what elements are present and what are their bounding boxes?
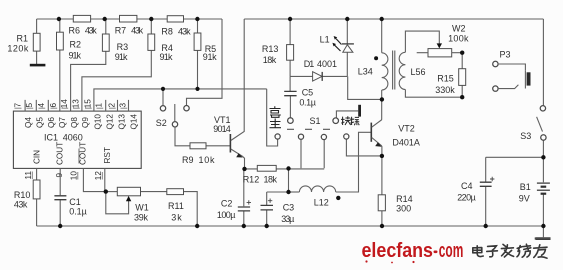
svg-text:Q4: Q4 — [24, 117, 33, 128]
svg-text:R3: R3 — [117, 42, 129, 52]
svg-text:B1: B1 — [520, 182, 531, 192]
svg-text:P3: P3 — [500, 50, 511, 60]
svg-text:R7: R7 — [115, 25, 127, 35]
svg-text:L1: L1 — [320, 35, 330, 45]
svg-text:3k: 3k — [171, 213, 182, 223]
svg-text:C4: C4 — [461, 181, 473, 191]
svg-text:91k: 91k — [203, 52, 217, 62]
svg-text:Q10: Q10 — [94, 114, 103, 130]
svg-text:330k: 330k — [435, 85, 455, 95]
svg-text:COUT: COUT — [79, 142, 88, 165]
svg-text:18k: 18k — [264, 175, 278, 185]
svg-text:VT2: VT2 — [398, 124, 415, 134]
svg-text:Q6: Q6 — [47, 117, 56, 128]
svg-text:Q12: Q12 — [106, 114, 115, 130]
svg-text:5: 5 — [25, 103, 34, 108]
svg-text:7: 7 — [14, 103, 23, 108]
svg-text:L12: L12 — [314, 197, 329, 207]
svg-text:R15: R15 — [437, 74, 454, 84]
svg-text:43k: 43k — [85, 26, 97, 36]
svg-text:100µ: 100µ — [217, 210, 236, 220]
svg-text:9: 9 — [55, 173, 64, 178]
svg-text:39k: 39k — [134, 213, 149, 223]
svg-text:11: 11 — [24, 171, 33, 180]
svg-text:Q13: Q13 — [118, 114, 127, 130]
svg-text:D1: D1 — [304, 59, 315, 69]
svg-text:COUT: COUT — [56, 142, 65, 165]
svg-text:C5: C5 — [302, 88, 314, 98]
svg-text:R11: R11 — [168, 201, 184, 211]
svg-text:C3: C3 — [283, 202, 295, 212]
svg-text:43k: 43k — [131, 25, 144, 35]
svg-text:14: 14 — [60, 99, 69, 109]
svg-text:1: 1 — [95, 103, 104, 108]
svg-text:9014: 9014 — [213, 124, 231, 134]
svg-text:300: 300 — [396, 203, 411, 213]
svg-text:9V: 9V — [519, 194, 530, 204]
svg-text:12: 12 — [94, 171, 103, 181]
svg-text:S3: S3 — [520, 131, 531, 141]
svg-text:W2: W2 — [452, 24, 466, 34]
svg-text:91k: 91k — [69, 51, 82, 61]
svg-text:6: 6 — [49, 103, 58, 108]
svg-text:15: 15 — [84, 99, 93, 109]
svg-text:com: com — [439, 240, 464, 262]
svg-text:D401A: D401A — [392, 137, 420, 147]
svg-text:18k: 18k — [263, 55, 277, 65]
svg-text:43k: 43k — [178, 26, 191, 36]
svg-text:2: 2 — [108, 103, 117, 108]
svg-text:R6: R6 — [69, 26, 81, 36]
svg-text:IC1: IC1 — [44, 132, 58, 142]
svg-text:W1: W1 — [135, 203, 149, 213]
svg-text:100k: 100k — [448, 33, 469, 43]
svg-text:4060: 4060 — [63, 132, 83, 142]
svg-text:R8: R8 — [161, 26, 173, 36]
svg-text:S1: S1 — [310, 116, 321, 126]
svg-text:R2: R2 — [70, 39, 82, 49]
svg-text:0.1µ: 0.1µ — [299, 97, 316, 107]
svg-text:Q7: Q7 — [58, 117, 67, 128]
svg-text:10k: 10k — [199, 155, 216, 165]
svg-text:elecfans: elecfans — [362, 240, 434, 262]
svg-text:0.1µ: 0.1µ — [69, 206, 87, 216]
svg-text:Q9: Q9 — [81, 117, 90, 128]
svg-text:220µ: 220µ — [457, 192, 476, 202]
svg-text:120k: 120k — [7, 43, 29, 53]
svg-text:33µ: 33µ — [281, 214, 294, 224]
svg-text:R10: R10 — [14, 190, 31, 200]
svg-text:3: 3 — [119, 103, 128, 108]
svg-text:RST: RST — [103, 147, 112, 163]
svg-text:Q5: Q5 — [35, 117, 44, 128]
svg-text:91k: 91k — [160, 52, 174, 62]
svg-text:Q8: Q8 — [70, 117, 79, 128]
svg-text:C2: C2 — [221, 198, 233, 208]
svg-text:S2: S2 — [156, 118, 167, 128]
svg-text:CIN: CIN — [33, 150, 42, 164]
svg-text:R1: R1 — [17, 34, 29, 44]
svg-text:L56: L56 — [411, 67, 426, 77]
svg-text:R12: R12 — [243, 175, 260, 185]
svg-text:91k: 91k — [115, 52, 128, 62]
svg-text:R13: R13 — [262, 44, 279, 54]
svg-text:4: 4 — [37, 103, 46, 108]
svg-text:R9: R9 — [182, 155, 194, 165]
svg-text:Q14: Q14 — [130, 114, 139, 130]
svg-text:L34: L34 — [358, 66, 373, 76]
svg-text:4001: 4001 — [317, 59, 337, 69]
svg-text:43k: 43k — [14, 199, 28, 209]
svg-text:10: 10 — [70, 171, 79, 181]
svg-text:13: 13 — [72, 99, 81, 109]
